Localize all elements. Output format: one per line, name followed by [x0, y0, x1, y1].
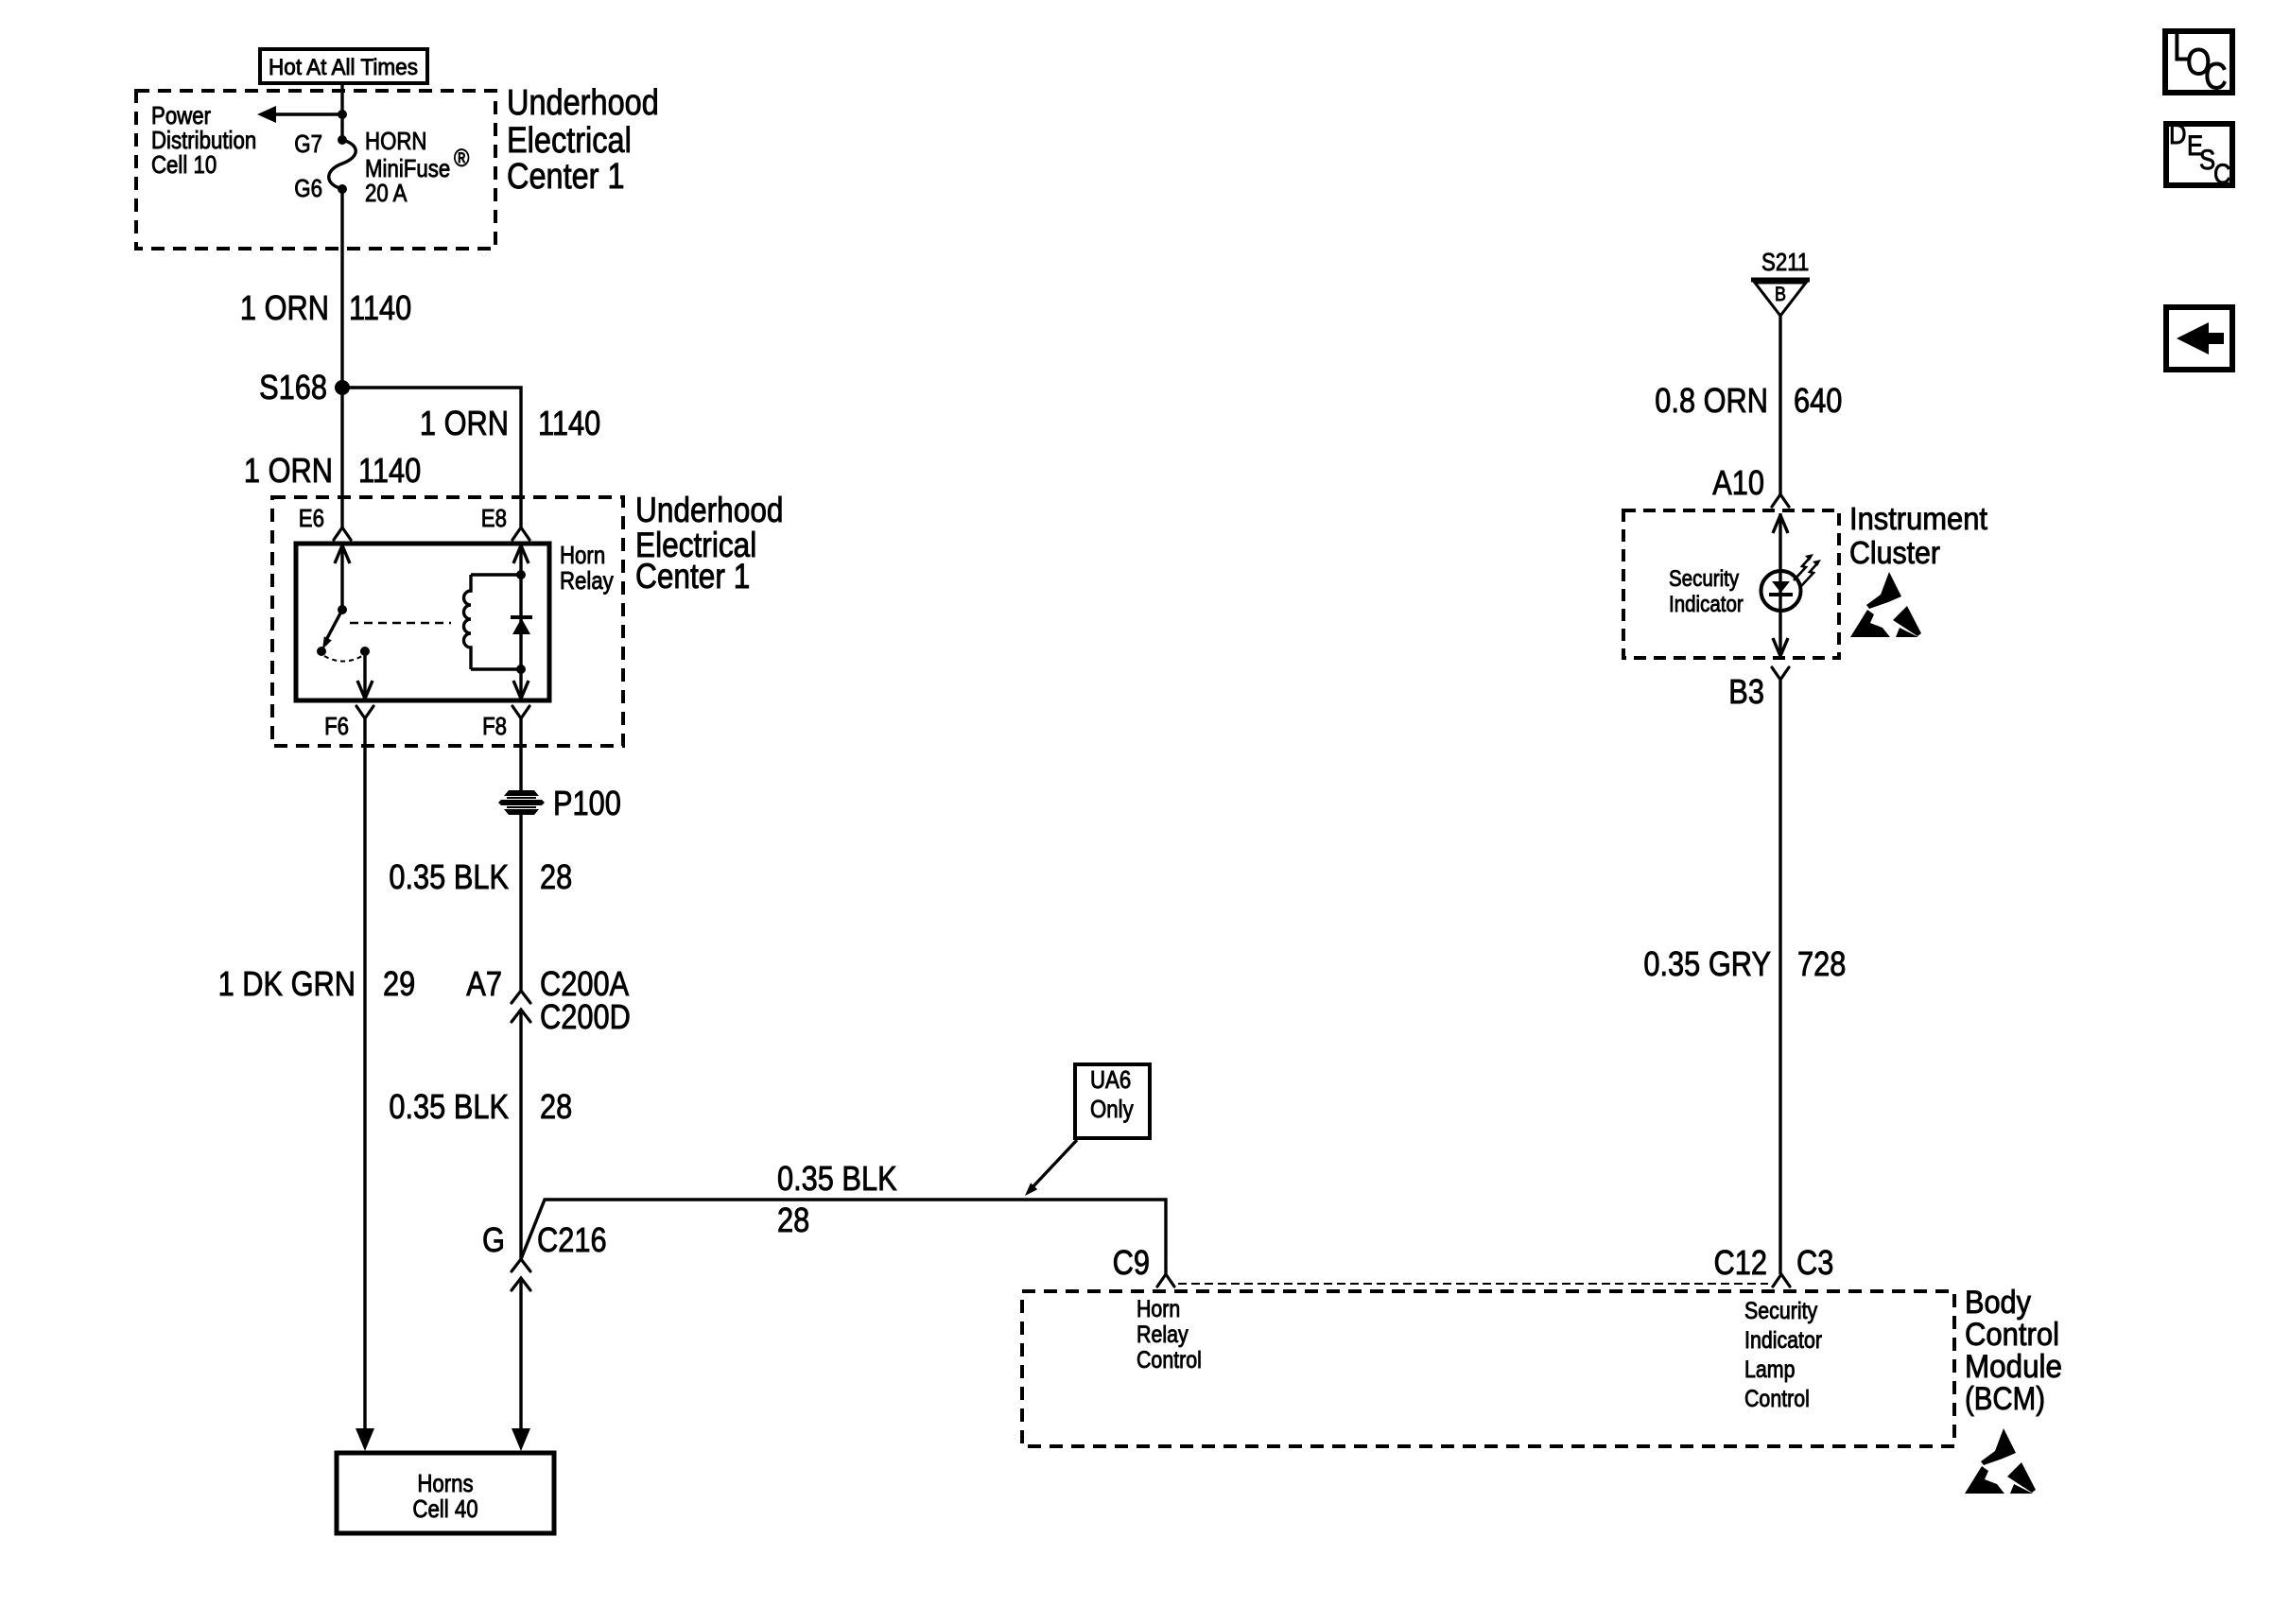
- label Horn Relay: [560, 541, 614, 595]
- wire F6 to horns: [363, 718, 366, 1430]
- svg-text:UA6: UA6: [1090, 1065, 1131, 1094]
- label Security Indicator Lamp Control: [1744, 1298, 1822, 1412]
- svg-text:1 ORN: 1 ORN: [244, 451, 333, 490]
- svg-text:G7: G7: [294, 130, 322, 158]
- wire B3 to C3: [1778, 680, 1781, 1274]
- title Body Control Module (BCM): [1965, 1285, 2062, 1417]
- connector chevron A10: [1772, 494, 1789, 507]
- arrow down to F8 inside relay: [513, 681, 529, 699]
- svg-text:Center 1: Center 1: [635, 557, 750, 596]
- svg-text:G6: G6: [294, 174, 322, 202]
- svg-text:Control: Control: [1965, 1317, 2059, 1353]
- box UA6 Only: [1075, 1064, 1150, 1138]
- LED light arrows: [1794, 554, 1821, 586]
- svg-text:1140: 1140: [358, 451, 421, 490]
- svg-text:®: ®: [454, 144, 469, 172]
- label 0.35 BLK 28: [389, 857, 572, 896]
- svg-text:0.35 GRY: 0.35 GRY: [1643, 944, 1771, 983]
- svg-text:E8: E8: [481, 504, 507, 532]
- svg-text:Hot At All Times: Hot At All Times: [269, 55, 418, 80]
- svg-text:Body: Body: [1965, 1285, 2031, 1321]
- connector chevron E8: [512, 527, 529, 540]
- contact dot NC: [317, 647, 326, 656]
- svg-text:Security: Security: [1744, 1298, 1818, 1324]
- svg-text:Cell 40: Cell 40: [412, 1494, 477, 1523]
- svg-text:Control: Control: [1136, 1347, 1202, 1373]
- svg-text:C12: C12: [1714, 1243, 1768, 1282]
- title Underhood Electrical Center 1 (top): [507, 83, 659, 197]
- svg-text:Underhood: Underhood: [635, 491, 784, 529]
- connector chevron C3: [1773, 1274, 1790, 1287]
- dashed box: relay Underhood Electrical Center 1: [272, 497, 623, 746]
- svg-text:C200D: C200D: [540, 997, 631, 1036]
- fuse HORN MiniFuse 20A: [329, 135, 356, 194]
- relay coil: [464, 575, 472, 669]
- wire P100 to C200: [519, 815, 522, 991]
- arrow down to F6 inside relay: [357, 651, 373, 700]
- label 0.35 BLK 28 (branch): [777, 1159, 897, 1239]
- LED diode symbol: [1769, 581, 1793, 595]
- switch arm: [322, 610, 342, 649]
- junction dot at power arrow: [338, 110, 347, 119]
- svg-text:Electrical: Electrical: [507, 121, 632, 161]
- svg-text:Horns: Horns: [417, 1469, 473, 1497]
- svg-text:1 ORN: 1 ORN: [240, 288, 329, 327]
- ESD symbol Instrument Cluster: [1850, 572, 1921, 637]
- nav box back arrow: [2166, 307, 2232, 370]
- svg-text:A7: A7: [466, 964, 502, 1003]
- wire C216 to horns: [519, 1278, 522, 1430]
- svg-text:Indicator: Indicator: [1669, 592, 1744, 617]
- arrow into IC at A10: [1773, 513, 1788, 571]
- svg-text:P100: P100: [553, 784, 621, 822]
- svg-text:0.35 BLK: 0.35 BLK: [389, 1087, 509, 1126]
- contact dot to F6: [360, 647, 370, 656]
- arrow down inside IC to B3: [1773, 614, 1788, 656]
- svg-text:28: 28: [777, 1201, 809, 1239]
- svg-text:Module: Module: [1965, 1349, 2062, 1385]
- svg-text:E6: E6: [299, 504, 324, 532]
- svg-text:Indicator: Indicator: [1744, 1327, 1822, 1354]
- svg-text:728: 728: [1797, 944, 1846, 983]
- box Horns Cell 40: [337, 1453, 554, 1533]
- LED circle Security Indicator: [1761, 571, 1801, 611]
- svg-text:1140: 1140: [538, 404, 600, 442]
- title Underhood Electrical Center 1 (relay): [635, 491, 784, 596]
- arrowhead into horns (right): [512, 1428, 530, 1451]
- svg-text:C: C: [2213, 159, 2231, 190]
- coil bottom lead: [471, 665, 526, 674]
- svg-text:A10: A10: [1712, 463, 1764, 502]
- wire branch to BCM C9: [521, 1200, 1166, 1274]
- splice symbol S211: [1751, 280, 1810, 316]
- connector C200A/C200D: [512, 991, 530, 1022]
- connector chevron F8: [512, 706, 529, 718]
- label 0.8 ORN 640: [1655, 381, 1842, 420]
- svg-text:1140: 1140: [349, 288, 411, 327]
- label 1 DK GRN 29: [218, 964, 416, 1003]
- dashed box Instrument Cluster: [1623, 510, 1839, 658]
- svg-text:20 A: 20 A: [365, 179, 408, 207]
- svg-text:C9: C9: [1113, 1243, 1150, 1282]
- wire E8 internal: [513, 544, 529, 700]
- dashed box BCM: [1022, 1291, 1954, 1446]
- wire: S168 down to E6: [340, 388, 343, 527]
- wire: fuse output to S168: [340, 189, 343, 388]
- svg-text:C: C: [2204, 56, 2228, 97]
- svg-text:Security: Security: [1669, 566, 1739, 592]
- svg-text:B3: B3: [1728, 672, 1764, 711]
- svg-text:640: 640: [1794, 381, 1842, 420]
- switch pivot dot: [338, 605, 347, 614]
- label Horn Relay Control: [1136, 1296, 1202, 1373]
- svg-text:Underhood: Underhood: [507, 83, 659, 123]
- label 1 ORN 1140 (top): [240, 288, 411, 327]
- svg-text:29: 29: [383, 964, 415, 1003]
- text Power Distribution Cell 10: [151, 101, 256, 179]
- svg-text:0.8 ORN: 0.8 ORN: [1655, 381, 1768, 420]
- svg-text:B: B: [1775, 284, 1786, 305]
- arrowhead into horns (left): [356, 1428, 374, 1451]
- wire F8 down to P100: [519, 718, 522, 790]
- label 0.35 BLK 28 (2): [389, 1087, 572, 1126]
- svg-text:0.35 BLK: 0.35 BLK: [389, 857, 509, 896]
- splice P100: [498, 784, 621, 822]
- thin dashed wire C9 to C12: [1178, 1283, 1768, 1285]
- wire: S168 branch to E8: [342, 388, 521, 527]
- ESD symbol BCM: [1965, 1428, 2036, 1494]
- wire: battery feed from Hot box into fuse: [340, 83, 343, 140]
- svg-text:28: 28: [540, 1087, 572, 1126]
- label 1 ORN 1140 (left): [244, 451, 421, 490]
- dashed link switch to coil: [350, 622, 451, 625]
- arrow to Power Distribution: [257, 106, 342, 123]
- wire/arrow into relay at E6: [335, 544, 350, 610]
- connector chevron B3: [1772, 667, 1789, 680]
- svg-text:28: 28: [540, 857, 572, 896]
- nav box LOC: [2165, 27, 2232, 97]
- svg-text:Relay: Relay: [560, 566, 614, 595]
- label Hot At All Times: [260, 49, 427, 83]
- label Security Indicator: [1669, 566, 1744, 617]
- svg-text:Control: Control: [1744, 1386, 1810, 1412]
- connector C216: [512, 1259, 530, 1290]
- wire S211 to A10: [1778, 316, 1781, 494]
- svg-text:Center 1: Center 1: [507, 157, 625, 197]
- dashed travel arc: [324, 656, 362, 662]
- svg-text:S211: S211: [1761, 248, 1809, 276]
- svg-text:1 DK GRN: 1 DK GRN: [218, 964, 356, 1003]
- dashed box: fuse block Underhood Electrical Center 1: [136, 91, 495, 249]
- svg-text:Cell 10: Cell 10: [151, 150, 217, 179]
- arrow from UA6 to wire: [1025, 1140, 1077, 1196]
- svg-text:Horn: Horn: [560, 541, 605, 569]
- svg-text:0.35 BLK: 0.35 BLK: [777, 1159, 897, 1198]
- svg-text:1 ORN: 1 ORN: [420, 404, 509, 442]
- svg-text:F6: F6: [324, 712, 349, 740]
- svg-text:Horn: Horn: [1136, 1296, 1180, 1322]
- nav box DESC: [2166, 119, 2232, 190]
- label 1 ORN 1140 (branch): [420, 404, 600, 442]
- svg-text:Relay: Relay: [1136, 1322, 1189, 1348]
- relay K1 box: [296, 544, 549, 700]
- svg-text:S168: S168: [259, 368, 327, 406]
- svg-text:Cluster: Cluster: [1849, 535, 1940, 570]
- label 0.35 GRY 728: [1643, 944, 1846, 983]
- coil top lead: [471, 570, 526, 579]
- svg-text:G: G: [482, 1220, 505, 1259]
- svg-text:C216: C216: [537, 1220, 607, 1259]
- svg-text:(BCM): (BCM): [1965, 1381, 2045, 1417]
- svg-text:Instrument: Instrument: [1849, 501, 1987, 536]
- diode D1: [511, 617, 532, 634]
- wire C200 to C216: [519, 1010, 522, 1259]
- connector chevron E6: [334, 527, 351, 540]
- connector chevron C9: [1157, 1274, 1174, 1287]
- wire through LED: [1778, 571, 1781, 614]
- splice S168: [259, 368, 350, 406]
- title Instrument Cluster: [1849, 501, 1987, 570]
- svg-text:D: D: [2169, 119, 2187, 150]
- svg-text:C3: C3: [1796, 1243, 1833, 1282]
- connector chevron F6: [356, 706, 373, 718]
- label HORN MiniFuse 20 A: [365, 127, 469, 207]
- svg-text:Only: Only: [1090, 1095, 1134, 1123]
- svg-text:Lamp: Lamp: [1744, 1356, 1796, 1383]
- svg-text:HORN: HORN: [365, 127, 427, 155]
- svg-text:F8: F8: [482, 712, 507, 740]
